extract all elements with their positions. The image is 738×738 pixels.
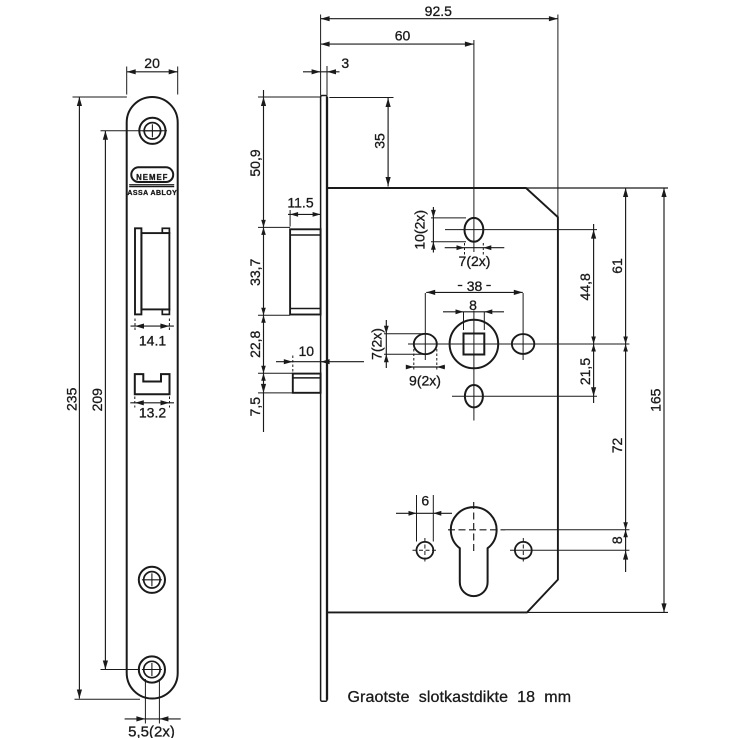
svg-text:35: 35 [372,133,388,149]
svg-text:5,5(2x): 5,5(2x) [128,724,175,738]
svg-text:ASSA ABLOY: ASSA ABLOY [127,190,177,197]
svg-text:8: 8 [469,297,477,313]
svg-text:21,5: 21,5 [577,358,593,385]
svg-text:165: 165 [648,388,664,412]
svg-text:60: 60 [395,28,411,44]
svg-text:61: 61 [609,258,625,274]
svg-text:22,8: 22,8 [247,330,263,357]
svg-text:20: 20 [144,55,160,71]
svg-text:14.1: 14.1 [139,333,166,349]
svg-text:9(2x): 9(2x) [409,373,441,389]
svg-text:NEMEF: NEMEF [136,173,168,182]
svg-text:3: 3 [341,55,349,71]
svg-text:13.2: 13.2 [139,405,166,421]
svg-text:44,8: 44,8 [577,273,593,300]
svg-text:7(2x): 7(2x) [459,253,491,269]
svg-text:11.5: 11.5 [287,195,313,211]
svg-text:Graotste slotkastdikte 18 m: Graotste slotkastdikte 18 mm [348,689,572,706]
svg-text:92.5: 92.5 [425,3,452,19]
svg-text:6: 6 [421,493,429,509]
svg-text:72: 72 [609,438,625,454]
svg-text:10(2x): 10(2x) [412,210,428,250]
svg-text:50,9: 50,9 [247,149,263,176]
svg-text:10: 10 [299,343,315,359]
svg-text:7,5: 7,5 [247,397,263,417]
svg-text:235: 235 [64,387,80,411]
svg-text:8: 8 [609,536,625,544]
svg-text:7(2x): 7(2x) [369,328,385,360]
svg-text:209: 209 [89,388,105,412]
svg-text:33,7: 33,7 [247,258,263,285]
svg-text:38: 38 [467,278,483,294]
